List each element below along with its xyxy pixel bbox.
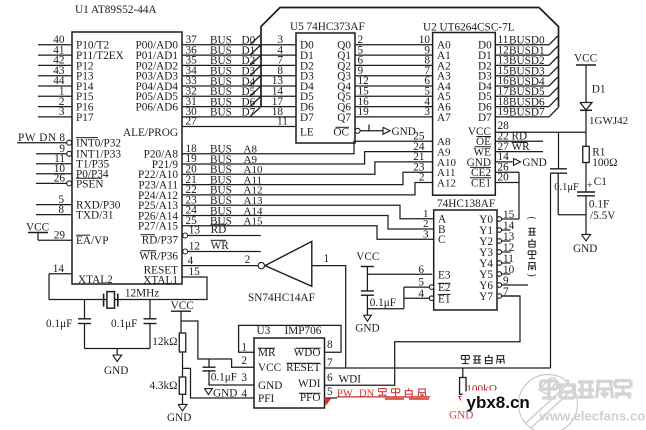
- svg-text:XTAL1: XTAL1: [143, 275, 178, 287]
- svg-text:0.1μF: 0.1μF: [211, 372, 237, 384]
- svg-text:6: 6: [418, 264, 424, 276]
- svg-text:4.3kΩ: 4.3kΩ: [149, 380, 177, 392]
- svg-text:LE: LE: [300, 126, 314, 138]
- svg-text:0.1μF: 0.1μF: [111, 318, 137, 330]
- svg-text:C1: C1: [594, 176, 607, 188]
- svg-text:CE1: CE1: [471, 177, 491, 189]
- svg-text:WR: WR: [211, 240, 230, 252]
- svg-text:D7: D7: [478, 112, 492, 124]
- svg-text:PW DN: PW DN: [18, 132, 57, 144]
- svg-text:8: 8: [58, 204, 64, 216]
- svg-text:GND: GND: [355, 323, 379, 335]
- svg-text:PSEN: PSEN: [76, 178, 104, 190]
- svg-text:E3: E3: [438, 269, 451, 281]
- svg-text:3: 3: [423, 229, 429, 241]
- svg-text:GND: GND: [104, 365, 128, 377]
- svg-text:U2 UT6264CSC-7L: U2 UT6264CSC-7L: [423, 22, 515, 34]
- svg-text:EA/VP: EA/VP: [76, 235, 109, 247]
- svg-text:1: 1: [241, 341, 247, 353]
- svg-text:RD/P37: RD/P37: [142, 234, 179, 246]
- svg-text:VCC: VCC: [574, 53, 597, 65]
- svg-text:12: 12: [189, 240, 200, 252]
- svg-text:U1 AT89S52-44A: U1 AT89S52-44A: [75, 4, 157, 16]
- svg-text:7: 7: [503, 286, 509, 298]
- svg-text:GND: GND: [522, 157, 546, 169]
- svg-text:3: 3: [59, 106, 65, 118]
- svg-text:14: 14: [53, 263, 65, 275]
- svg-text:IMP706: IMP706: [285, 325, 322, 337]
- svg-text:PW: PW: [337, 389, 353, 400]
- svg-text:P17: P17: [76, 112, 94, 124]
- svg-text:15: 15: [189, 266, 201, 278]
- svg-text:VCC: VCC: [171, 300, 194, 312]
- svg-text:VCC: VCC: [258, 362, 281, 374]
- svg-text:P27/A15: P27/A15: [138, 221, 178, 233]
- svg-text:18: 18: [272, 106, 284, 118]
- svg-text:RD: RD: [211, 224, 227, 236]
- svg-text:VCC: VCC: [26, 221, 49, 233]
- svg-text:29: 29: [54, 229, 66, 241]
- svg-text:0.1μF: 0.1μF: [46, 318, 72, 330]
- svg-text:2: 2: [419, 172, 425, 184]
- svg-text:3: 3: [424, 106, 430, 118]
- svg-text:XTAL2: XTAL2: [78, 274, 113, 286]
- svg-text:BUS: BUS: [210, 107, 232, 119]
- svg-text:Y7: Y7: [479, 291, 493, 303]
- svg-text:D1: D1: [592, 83, 606, 95]
- svg-text:BUSD7: BUSD7: [509, 107, 545, 119]
- svg-text:WDI: WDI: [339, 374, 362, 386]
- svg-text:4: 4: [188, 255, 194, 267]
- svg-text:ALE/PROG: ALE/PROG: [123, 127, 178, 139]
- svg-text:ybx8.cn: ybx8.cn: [467, 393, 530, 412]
- svg-text:P06/AD6: P06/AD6: [135, 102, 178, 114]
- svg-text:5: 5: [327, 386, 333, 398]
- svg-text:5: 5: [418, 276, 424, 288]
- svg-text:TXD/31: TXD/31: [76, 210, 114, 222]
- svg-text:SN74HC14AF: SN74HC14AF: [248, 292, 315, 304]
- svg-text:0.1μF: 0.1μF: [554, 182, 579, 193]
- svg-text:MR: MR: [258, 347, 276, 359]
- svg-text:A12: A12: [437, 177, 456, 189]
- svg-text:PFI: PFI: [258, 393, 275, 405]
- svg-text:GND: GND: [167, 412, 191, 424]
- svg-text:4: 4: [418, 288, 424, 300]
- svg-text:12kΩ: 12kΩ: [152, 336, 177, 348]
- svg-text:/5.5V: /5.5V: [590, 210, 615, 222]
- svg-text:GND: GND: [573, 243, 597, 255]
- svg-text:3: 3: [241, 372, 247, 384]
- svg-text:2: 2: [241, 355, 247, 367]
- svg-text:DN: DN: [359, 389, 375, 400]
- svg-text:6: 6: [327, 372, 333, 384]
- svg-text:27: 27: [186, 116, 198, 128]
- svg-text:): ): [526, 273, 537, 276]
- svg-text:4: 4: [241, 388, 247, 400]
- svg-text:100Ω: 100Ω: [592, 157, 617, 169]
- svg-text:8: 8: [327, 339, 333, 351]
- svg-text:RESET: RESET: [286, 362, 321, 374]
- svg-text:WDO: WDO: [294, 347, 321, 359]
- svg-text:Q7: Q7: [337, 112, 351, 124]
- svg-text:WR/P36: WR/P36: [139, 250, 178, 262]
- svg-text:PFO: PFO: [300, 392, 321, 404]
- svg-text:WDI: WDI: [298, 378, 321, 390]
- svg-text:GND: GND: [213, 387, 237, 399]
- svg-text:GND: GND: [258, 380, 282, 392]
- svg-text:+: +: [587, 180, 593, 191]
- svg-text:1: 1: [324, 253, 330, 265]
- svg-text:12MHz: 12MHz: [125, 287, 159, 299]
- svg-text:www.elecfans.com: www.elecfans.com: [539, 409, 646, 424]
- svg-text:E1: E1: [438, 293, 451, 305]
- svg-text:C: C: [438, 234, 446, 246]
- svg-text:U5 74HC373AF: U5 74HC373AF: [290, 21, 365, 33]
- svg-text:VCC: VCC: [356, 251, 379, 263]
- svg-text:U3: U3: [257, 325, 271, 337]
- svg-text:GND: GND: [392, 126, 416, 138]
- svg-text:74HC138AF: 74HC138AF: [437, 198, 495, 210]
- svg-text:D7: D7: [300, 112, 314, 124]
- svg-text:2: 2: [245, 254, 251, 266]
- svg-text:1GWJ42: 1GWJ42: [589, 115, 628, 127]
- svg-text:OC: OC: [333, 126, 349, 138]
- svg-text:A7: A7: [437, 112, 451, 124]
- svg-text:0.1μF: 0.1μF: [370, 297, 396, 309]
- svg-text:26: 26: [54, 173, 66, 185]
- svg-text:13: 13: [189, 224, 201, 236]
- svg-text:0.1F: 0.1F: [589, 199, 609, 211]
